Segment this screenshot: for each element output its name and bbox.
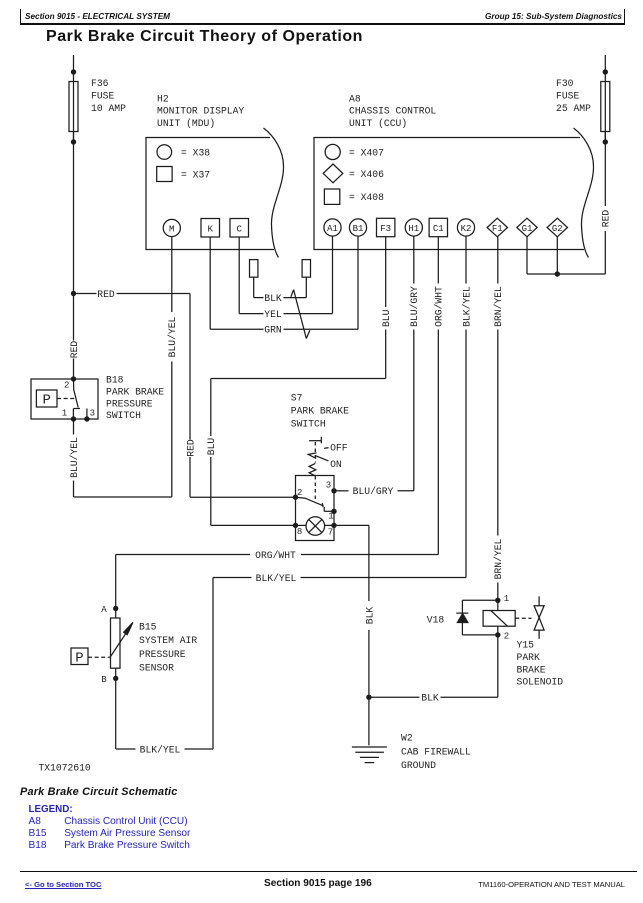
fuse F36 <box>69 82 78 132</box>
wire BLU/YEL bottom run <box>74 496 172 498</box>
junction dot below F36 <box>71 139 76 144</box>
connector C <box>230 219 249 238</box>
Y15 coil leads <box>497 600 499 610</box>
footer TOC link <box>25 880 101 889</box>
wire RED branch horizontal <box>74 293 97 295</box>
MDU legend square X37 <box>157 167 172 182</box>
svg-text:SOLENOID: SOLENOID <box>517 677 564 688</box>
S7 spring <box>309 463 316 475</box>
svg-text:ON: ON <box>330 459 342 470</box>
S7 pin 1 dot <box>331 509 336 514</box>
CCU legend circle X407 <box>325 144 340 159</box>
wire M lead BLU/YEL <box>171 237 173 312</box>
S7 pin 2 dot <box>293 495 298 500</box>
S7 lamp <box>306 517 325 536</box>
wire BLU horizontal jog <box>211 378 386 380</box>
svg-text:YEL: YEL <box>264 309 282 320</box>
svg-text:BLU/YEL: BLU/YEL <box>167 316 178 357</box>
svg-text:G2: G2 <box>552 224 563 234</box>
wire B1 lead <box>357 236 359 329</box>
page title <box>46 28 363 46</box>
svg-text:UNIT (MDU): UNIT (MDU) <box>157 118 215 129</box>
MDU lamp resistor left <box>250 260 258 278</box>
svg-text:BLK: BLK <box>364 607 375 625</box>
wire BLU drop <box>210 379 212 437</box>
wire F36 to RED junction <box>73 131 75 294</box>
svg-text:7: 7 <box>328 528 333 538</box>
wire BLK to ground <box>368 697 370 745</box>
svg-text:BLK/YEL: BLK/YEL <box>461 286 472 327</box>
svg-text:= X407: = X407 <box>349 148 384 159</box>
legend row B15 <box>29 828 47 839</box>
B18 pin 2 dot <box>71 376 76 381</box>
svg-text:BLK/YEL: BLK/YEL <box>140 744 181 755</box>
wire K lead <box>209 237 211 329</box>
svg-text:PRESSURE: PRESSURE <box>139 649 186 660</box>
solenoid Y15 coil box <box>483 611 515 627</box>
svg-text:C: C <box>236 223 242 234</box>
connector F3 <box>377 218 395 236</box>
wire YEL <box>239 313 263 315</box>
svg-text:Y15: Y15 <box>517 640 535 651</box>
svg-text:RED: RED <box>601 210 612 228</box>
svg-text:TX1072610: TX1072610 <box>38 763 91 774</box>
svg-text:PARK BRAKE: PARK BRAKE <box>291 406 349 417</box>
svg-text:PARK: PARK <box>517 652 540 663</box>
junction dot above F36 <box>71 69 76 74</box>
B15 actuator dashed link <box>88 656 110 658</box>
B18 switch lever <box>74 379 79 408</box>
diode V18 <box>456 612 468 614</box>
wire RED drop to S7 pin 2 <box>189 294 191 440</box>
header right text <box>485 12 622 21</box>
S7 OFF tie dash <box>324 447 329 450</box>
wire BLK horizontal to Y15 <box>369 696 420 698</box>
wire BLK jumper <box>254 297 264 299</box>
svg-text:F30: F30 <box>556 78 574 89</box>
svg-text:G1: G1 <box>522 224 533 234</box>
svg-text:MONITOR DISPLAY: MONITOR DISPLAY <box>157 106 244 117</box>
CCU box wavy right edge <box>574 128 594 258</box>
legend row B18 <box>29 840 47 851</box>
connector B1 <box>349 219 366 236</box>
connector C1 <box>429 218 447 236</box>
B15 variable arrow <box>110 631 128 658</box>
svg-text:10 AMP: 10 AMP <box>91 103 126 114</box>
node BLK junction dot <box>366 695 371 700</box>
B18 pin 3 stub <box>86 409 88 420</box>
CCU legend square X408 <box>324 189 339 204</box>
svg-text:2: 2 <box>297 488 302 498</box>
connector F1 <box>487 218 507 237</box>
svg-text:F3: F3 <box>380 224 391 234</box>
wire BLU/YEL up to B18 pin 1 <box>73 481 75 498</box>
svg-text:F1: F1 <box>492 224 503 234</box>
header rule <box>20 23 625 24</box>
wire down to B15 pin A <box>115 555 117 609</box>
wire diode branch top <box>462 599 497 601</box>
wire H1 lead BLU/GRY <box>413 236 415 283</box>
wire BLK/YEL drop <box>212 578 214 750</box>
svg-text:= X37: = X37 <box>181 170 210 181</box>
svg-text:1: 1 <box>62 408 67 418</box>
B15 pin A dot <box>113 606 118 611</box>
wire lamp right lead <box>305 277 307 297</box>
svg-text:RED: RED <box>185 439 196 457</box>
svg-text:FUSE: FUSE <box>91 91 114 102</box>
wire G1 lead <box>526 236 528 274</box>
Y15 valve dashed link <box>515 617 531 619</box>
svg-text:SENSOR: SENSOR <box>139 663 174 674</box>
Y15 pin 1 dot <box>495 598 500 603</box>
svg-text:A1: A1 <box>327 224 338 234</box>
B18 pin 1 dot <box>71 416 76 421</box>
node G junction dot <box>555 271 560 276</box>
svg-text:BLU: BLU <box>206 438 217 456</box>
wire C lead <box>238 237 240 314</box>
S7 lever arrowhead <box>308 453 316 459</box>
svg-text:SWITCH: SWITCH <box>106 410 141 421</box>
legend heading <box>29 804 73 815</box>
CCU legend diamond X406 <box>323 164 343 183</box>
svg-text:H2: H2 <box>157 94 169 105</box>
MDU legend circle X38 <box>157 145 172 160</box>
header left text <box>25 12 170 21</box>
svg-text:B15: B15 <box>139 622 157 633</box>
svg-text:1: 1 <box>504 594 509 604</box>
svg-text:2: 2 <box>504 632 509 642</box>
B18 pressure actuator box <box>36 390 57 407</box>
switch S7 box <box>296 476 335 541</box>
CCU unit A8 box <box>314 138 584 250</box>
svg-text:BRN/YEL: BRN/YEL <box>493 538 504 579</box>
svg-text:ORG/WHT: ORG/WHT <box>434 286 445 327</box>
pointer arrow double head <box>291 290 294 297</box>
ground W2 symbol <box>352 746 387 748</box>
wire pin7 to BLK drop <box>334 524 369 526</box>
svg-text:BLU/GRY: BLU/GRY <box>353 486 394 497</box>
svg-text:RED: RED <box>97 289 115 300</box>
B15 pin B dot <box>113 676 118 681</box>
Y15 coil diagonal <box>491 611 508 627</box>
wire up to B15 pin B <box>115 678 117 749</box>
connector A1 <box>324 219 341 236</box>
S7 internal contact <box>296 497 323 505</box>
svg-text:B: B <box>101 675 107 685</box>
svg-text:FUSE: FUSE <box>556 91 579 102</box>
connector K2 <box>457 219 474 236</box>
svg-text:1: 1 <box>328 512 333 522</box>
svg-text:8: 8 <box>297 527 302 537</box>
wire battery feed to F30 <box>604 55 606 142</box>
S7 lever <box>316 456 329 461</box>
header left tick <box>20 9 21 25</box>
svg-text:PARK BRAKE: PARK BRAKE <box>106 386 164 397</box>
svg-text:P: P <box>42 393 50 409</box>
svg-text:BLU/GRY: BLU/GRY <box>409 286 420 327</box>
sensor B15 body <box>111 618 121 668</box>
wire BLK/YEL horizontal <box>301 577 467 579</box>
svg-text:B1: B1 <box>353 224 364 234</box>
connector G2 <box>547 218 567 237</box>
B18 pin 3 dot <box>84 416 89 421</box>
fuse F30 <box>601 82 610 132</box>
svg-text:W2: W2 <box>401 733 413 744</box>
S7 pin 8 dot <box>293 523 298 528</box>
connector M <box>163 219 180 236</box>
svg-text:BRN/YEL: BRN/YEL <box>493 286 504 327</box>
B15 pressure actuator box <box>71 648 88 665</box>
svg-text:H1: H1 <box>408 224 419 234</box>
svg-text:OFF: OFF <box>330 443 348 454</box>
svg-text:3: 3 <box>326 480 331 490</box>
svg-text:ORG/WHT: ORG/WHT <box>255 550 296 561</box>
svg-text:B18: B18 <box>106 375 124 386</box>
wire lamp left lead <box>253 277 255 297</box>
svg-text:M: M <box>169 223 175 234</box>
svg-text:F36: F36 <box>91 78 109 89</box>
svg-text:P: P <box>75 651 83 667</box>
Y15 pin 2 dot <box>495 632 500 637</box>
S7 pin 3 dot <box>331 488 336 493</box>
svg-text:BLU/YEL: BLU/YEL <box>69 437 80 478</box>
svg-text:V18: V18 <box>427 615 445 626</box>
wire RED vertical to B18 pin 2 <box>73 294 75 341</box>
wire F30 to G-junction <box>557 273 605 275</box>
svg-text:K2: K2 <box>461 224 472 234</box>
svg-text:K: K <box>207 223 213 234</box>
switch B18 box <box>31 379 98 419</box>
Y15 valve symbol <box>538 596 540 605</box>
svg-text:GRN: GRN <box>264 325 282 336</box>
wire BLK/YEL bottom run <box>185 748 214 750</box>
svg-text:3: 3 <box>90 408 95 418</box>
wire K2 lead BLK/YEL <box>465 236 467 283</box>
svg-text:A8: A8 <box>349 94 361 105</box>
wire C1 lead ORG/WHT <box>437 237 439 284</box>
wire diode branch bottom <box>462 634 497 636</box>
svg-text:C1: C1 <box>433 224 444 234</box>
junction dot below F30 <box>603 139 608 144</box>
svg-text:SWITCH: SWITCH <box>291 419 326 430</box>
S7 OFF contact bar <box>309 440 321 442</box>
svg-text:BLK/YEL: BLK/YEL <box>256 573 297 584</box>
svg-text:SYSTEM AIR: SYSTEM AIR <box>139 635 197 646</box>
legend row A8 <box>29 816 41 827</box>
svg-text:BRAKE: BRAKE <box>517 664 546 675</box>
MDU lamp resistor right <box>302 260 310 278</box>
svg-text:= X408: = X408 <box>349 192 384 203</box>
wire ORG/WHT horizontal <box>301 554 438 556</box>
svg-text:PRESSURE: PRESSURE <box>106 398 153 409</box>
wire BLU/GRY horizontal <box>398 490 414 492</box>
svg-text:UNIT (CCU): UNIT (CCU) <box>349 118 407 129</box>
svg-text:= X38: = X38 <box>181 148 210 159</box>
svg-text:BLU: BLU <box>381 309 392 327</box>
svg-text:BLK: BLK <box>421 693 439 704</box>
svg-text:BLK: BLK <box>264 293 282 304</box>
connector G1 <box>517 218 537 237</box>
S7 toggle dashed axis <box>314 442 316 463</box>
wire G2 lead <box>556 236 558 274</box>
svg-text:RED: RED <box>69 341 80 359</box>
wire up to Y15 pin 2 <box>497 635 499 697</box>
wire F30 RED down <box>604 131 606 206</box>
connector H1 <box>405 219 422 236</box>
svg-text:2: 2 <box>64 381 69 391</box>
svg-text:= X406: = X406 <box>349 169 384 180</box>
wire GRN <box>210 328 263 330</box>
svg-text:CAB FIREWALL: CAB FIREWALL <box>401 746 471 757</box>
B18 actuator dashed link <box>57 398 74 400</box>
header right tick <box>624 9 625 25</box>
wire battery feed to F36 <box>73 55 75 142</box>
footer page number <box>264 878 372 889</box>
svg-text:25 AMP: 25 AMP <box>556 103 591 114</box>
MDU box wavy right edge <box>264 128 284 258</box>
svg-text:A: A <box>101 605 107 615</box>
S7 pin 7 dot <box>331 523 336 528</box>
MDU unit H2 box <box>146 138 274 250</box>
schematic caption <box>20 786 178 798</box>
wire F3 lead BLU <box>385 237 387 307</box>
svg-text:CHASSIS CONTROL: CHASSIS CONTROL <box>349 106 436 117</box>
footer manual name <box>478 880 625 889</box>
footer rule <box>20 871 637 872</box>
svg-text:GROUND: GROUND <box>401 760 436 771</box>
node RED junction <box>71 291 76 296</box>
connector K <box>201 219 220 238</box>
wire A1 lead <box>332 236 334 314</box>
wire F1 lead BRN/YEL <box>497 237 499 284</box>
junction dot above F30 <box>603 69 608 74</box>
svg-text:S7: S7 <box>291 393 303 404</box>
